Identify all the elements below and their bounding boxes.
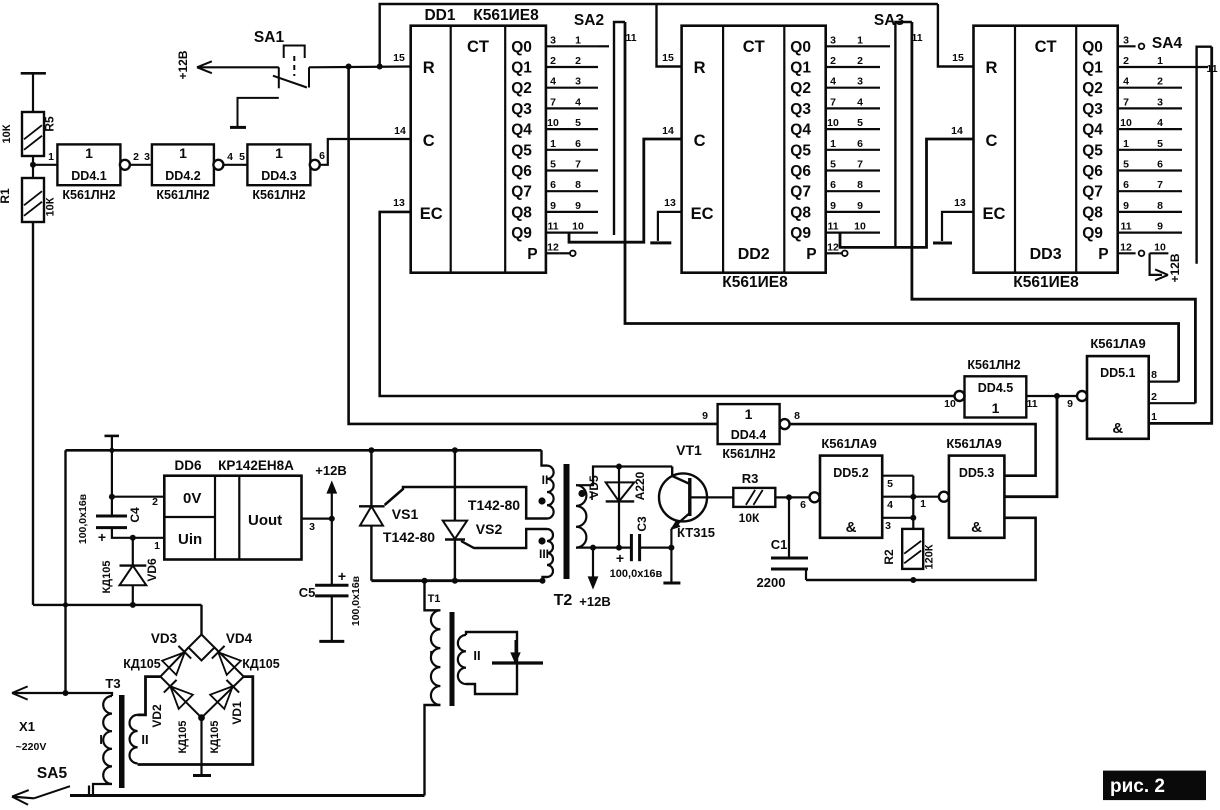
IC DD1 output pin stubs with pin numbers	[546, 45, 598, 47]
svg-text:Uin: Uin	[178, 531, 202, 548]
svg-text:DD4.5: DD4.5	[978, 381, 1013, 395]
junction VT1 emitter with C3 wire	[668, 545, 674, 551]
svg-text:Q5: Q5	[1082, 142, 1103, 159]
unconnected pin 12 circle DD3 P	[1139, 251, 1145, 257]
inverter DD4.4	[718, 404, 780, 444]
svg-text:I: I	[429, 648, 433, 663]
svg-text:КД105: КД105	[242, 657, 279, 671]
svg-text:Q2: Q2	[511, 80, 532, 97]
svg-text:0V: 0V	[183, 490, 201, 507]
svg-text:8: 8	[794, 410, 800, 422]
T2 winding III bottom to cathode rail	[543, 577, 548, 581]
svg-text:Q1: Q1	[1082, 60, 1103, 77]
wire bridge top vertex	[200, 605, 202, 635]
svg-text:2: 2	[133, 151, 139, 163]
svg-text:5: 5	[550, 159, 556, 171]
ground symbol near SA1	[238, 98, 279, 127]
SA1 right contact post	[308, 67, 310, 87]
inverter DD4.1	[57, 144, 120, 185]
svg-text:Q6: Q6	[790, 163, 811, 180]
svg-text:1: 1	[154, 540, 160, 552]
svg-text:Q9: Q9	[511, 225, 532, 242]
wire with arrow to +12V	[197, 66, 279, 68]
svg-text:P: P	[527, 246, 537, 263]
junction R2 bottom on feedback line	[910, 577, 916, 583]
svg-text:R5: R5	[43, 116, 57, 132]
extended contact 1 line of SA2	[598, 45, 609, 47]
svg-text:Q1: Q1	[790, 60, 811, 77]
T3 winding I bottom to bottom rail	[93, 784, 112, 796]
svg-text:2: 2	[1157, 76, 1163, 88]
svg-text:Q7: Q7	[790, 184, 811, 201]
svg-text:2: 2	[857, 55, 863, 67]
svg-text:&: &	[846, 519, 857, 536]
terminal bar above C4 node	[105, 435, 120, 438]
T3 winding II	[130, 715, 138, 764]
svg-text:I: I	[99, 732, 103, 747]
IC DD3 K561IE8 counter box	[974, 26, 1118, 273]
diode VD6	[132, 538, 134, 566]
svg-text:120К: 120К	[924, 544, 936, 569]
svg-text:+: +	[338, 568, 346, 584]
junction R bus to DD4.4 line	[346, 64, 352, 70]
resistor R2	[902, 529, 923, 569]
svg-text:DD5.1: DD5.1	[1100, 366, 1135, 380]
svg-text:10К: 10К	[1, 124, 13, 143]
svg-text:11: 11	[1120, 221, 1131, 233]
svg-text:10К: 10К	[45, 197, 57, 216]
ground at DD3 EC pin 13	[942, 212, 974, 241]
svg-text:9: 9	[1157, 221, 1163, 233]
svg-text:9: 9	[857, 200, 863, 212]
junction VD6 top	[130, 535, 136, 541]
svg-text:КД105: КД105	[101, 561, 113, 594]
svg-text:DD4.2: DD4.2	[165, 169, 200, 183]
svg-text:12: 12	[1120, 241, 1132, 253]
output bubble DD5.3	[939, 492, 949, 502]
output bubble DD4.4 pin 8	[780, 419, 790, 429]
polarity dot T2 winding III	[538, 537, 545, 544]
terminal bar above R5	[21, 72, 46, 75]
svg-text:VD3: VD3	[151, 631, 178, 646]
wire bottom of T2-I / VD5 / C3 / emitter	[576, 546, 631, 548]
svg-text:C: C	[986, 132, 998, 150]
svg-text:2200: 2200	[757, 575, 786, 590]
svg-text:К561ИЕ8: К561ИЕ8	[1013, 274, 1079, 291]
capacitor C1 plates	[771, 557, 808, 560]
wire DD4.4 output to DD5.3 input stub	[790, 424, 1036, 476]
VT1 emitter to ground	[670, 529, 672, 583]
T1 winding II	[458, 635, 466, 684]
inverter DD4.2	[152, 144, 214, 185]
ground bar under VT1	[663, 582, 680, 585]
wire T2 winding I top to VT1 collector	[576, 467, 672, 486]
svg-text:8: 8	[1151, 369, 1157, 381]
wire R3 to DD5.2 input	[775, 496, 809, 498]
svg-text:Q6: Q6	[511, 163, 532, 180]
svg-text:13: 13	[664, 197, 676, 209]
svg-text:3: 3	[830, 34, 836, 46]
svg-text:SA5: SA5	[37, 765, 68, 782]
svg-text:1: 1	[745, 406, 753, 422]
svg-text:14: 14	[662, 125, 674, 137]
svg-text:К561ЛН2: К561ЛН2	[156, 188, 209, 202]
DD5.1 input pin 2 stub	[1149, 402, 1196, 404]
svg-text:2: 2	[575, 55, 581, 67]
svg-text:КТ315: КТ315	[677, 525, 715, 540]
svg-text:1: 1	[992, 400, 1000, 416]
DD5.3 bottom stub to RC feedback line	[806, 518, 1036, 580]
resistor R5	[22, 112, 44, 156]
extended contact 1 line of SA3	[880, 45, 890, 47]
svg-text:5: 5	[830, 159, 836, 171]
VS1 gate wire to T2 winding II	[385, 487, 547, 519]
svg-text:CT: CT	[467, 38, 489, 56]
contact 1 line of SA4	[1182, 66, 1208, 68]
switch SA5 arrow	[12, 797, 34, 799]
svg-text:3: 3	[309, 521, 315, 533]
svg-text:8: 8	[857, 179, 863, 191]
svg-text:VD4: VD4	[226, 631, 253, 646]
svg-text:DD3: DD3	[1030, 246, 1062, 263]
svg-text:К561ЛН2: К561ЛН2	[722, 447, 775, 461]
wire R-bus down to DD4.4 input pin 9	[349, 67, 718, 424]
resistor R3	[733, 488, 775, 507]
DD5.2 input stub pin 3	[882, 517, 913, 519]
unconnected pin 12 circle DD1	[560, 252, 570, 254]
svg-text:+12В: +12В	[176, 50, 190, 79]
svg-text:С4: С4	[128, 507, 142, 523]
junction T1 primary tap	[422, 578, 428, 584]
svg-text:+: +	[98, 529, 106, 545]
figure label ris.2	[1103, 771, 1206, 801]
svg-text:EC: EC	[983, 205, 1006, 223]
polarity dot T2 winding I	[578, 490, 585, 497]
svg-text:+12В: +12В	[315, 463, 346, 478]
svg-text:1: 1	[550, 138, 556, 150]
svg-text:С3: С3	[635, 516, 649, 532]
wire DD1 EC pin 13 down and right to DD4.5 output	[380, 212, 959, 396]
T2 core	[564, 464, 570, 579]
DD5.2 input stub pin 4	[882, 496, 913, 498]
svg-text:5: 5	[887, 478, 893, 490]
svg-text:9: 9	[830, 200, 836, 212]
svg-text:12: 12	[547, 241, 559, 253]
svg-text:&: &	[971, 519, 982, 536]
svg-text:II: II	[542, 473, 549, 487]
output bubble DD4.5 pin 10	[955, 391, 965, 401]
svg-text:8: 8	[1157, 200, 1163, 212]
svg-text:11: 11	[625, 32, 636, 44]
svg-text:Q7: Q7	[511, 184, 532, 201]
svg-text:4: 4	[1157, 117, 1163, 129]
svg-text:X1: X1	[19, 719, 35, 734]
svg-text:4: 4	[857, 96, 863, 108]
svg-text:7: 7	[575, 159, 581, 171]
svg-text:EC: EC	[420, 205, 443, 223]
IC DD1 K561IE8 counter box	[411, 26, 546, 273]
svg-text:100,0х16в: 100,0х16в	[350, 575, 362, 626]
rotary switch SA3 common output wire to DD5.1 pin 2	[912, 22, 1196, 403]
junction to DD5.3 output riser	[1054, 393, 1060, 399]
svg-text:Q3: Q3	[1082, 101, 1103, 118]
svg-text:К561ЛА9: К561ЛА9	[821, 436, 876, 451]
svg-text:R: R	[694, 59, 706, 77]
X1 input arrow	[12, 692, 66, 694]
svg-text:10: 10	[854, 221, 866, 233]
thyristor VS2	[443, 521, 467, 539]
svg-text:Q9: Q9	[790, 225, 811, 242]
VS2 gate wire to T2 winding III	[461, 529, 547, 548]
svg-text:P: P	[1098, 246, 1108, 263]
svg-text:3: 3	[144, 151, 150, 163]
svg-text:4: 4	[1123, 76, 1129, 88]
polarity dot T2 winding II	[538, 497, 545, 504]
svg-text:13: 13	[954, 197, 966, 209]
svg-text:9: 9	[575, 200, 581, 212]
junction R bus to top rail	[377, 64, 383, 70]
wire R1 down left side	[32, 222, 34, 605]
T3 core	[119, 695, 125, 788]
bridge arm VD3	[160, 648, 188, 677]
bridge arm VD4	[215, 648, 244, 677]
svg-text:4: 4	[887, 499, 893, 511]
svg-text:1: 1	[1123, 138, 1129, 150]
VT1 emitter wire with arrow	[671, 513, 689, 529]
NAND gate DD5.1	[1087, 356, 1149, 439]
capacitor C3 plates	[630, 534, 633, 561]
svg-text:6: 6	[550, 179, 556, 191]
svg-text:DD4.4: DD4.4	[731, 428, 766, 442]
wire DD4.3 pin6 to DD1 C input pin 14	[320, 139, 411, 165]
svg-text:C: C	[694, 132, 706, 150]
svg-text:Q3: Q3	[511, 101, 532, 118]
svg-text:8: 8	[575, 179, 581, 191]
thyristor VS2 anode wire	[452, 447, 458, 453]
svg-text:Q0: Q0	[511, 39, 532, 56]
svg-text:6: 6	[857, 138, 863, 150]
svg-text:Q5: Q5	[790, 142, 811, 159]
rotary switch SA4 wiper bar	[1197, 47, 1212, 264]
svg-text:КД105: КД105	[177, 721, 189, 754]
riser from DD5.3 middle stub up to DD4.5/DD5.1 wire	[1004, 396, 1057, 497]
svg-text:VD1: VD1	[230, 701, 244, 725]
wire DD2 Q9 to DD3 C pin 14 (cascade)	[840, 139, 974, 247]
svg-text:15: 15	[393, 52, 405, 64]
svg-text:К561ИЕ8: К561ИЕ8	[722, 274, 788, 291]
output bubble DD4.3	[310, 160, 320, 170]
svg-text:4: 4	[830, 76, 836, 88]
bridge right vertex to T3 winding II bottom line	[138, 677, 253, 765]
svg-text:КД105: КД105	[209, 721, 221, 754]
rotary switch SA4 common output wire down to DD5.1 pin 1	[1149, 47, 1212, 424]
svg-text:5: 5	[857, 117, 863, 129]
svg-text:7: 7	[1123, 96, 1129, 108]
svg-text:+12В: +12В	[1168, 253, 1182, 282]
NAND gate DD5.3	[949, 456, 1005, 538]
svg-text:15: 15	[662, 52, 674, 64]
svg-text:10: 10	[572, 221, 584, 233]
rotary switch SA2 wiper bar	[614, 22, 625, 235]
svg-text:2: 2	[1123, 55, 1129, 67]
spark gap plate electrode	[492, 661, 543, 664]
svg-text:R: R	[423, 59, 435, 77]
svg-text:R3: R3	[742, 471, 759, 486]
svg-text:6: 6	[830, 179, 836, 191]
svg-text:Q6: Q6	[1082, 163, 1103, 180]
svg-text:I: I	[590, 489, 593, 503]
svg-text:6: 6	[1123, 179, 1129, 191]
svg-text:3: 3	[1157, 96, 1163, 108]
svg-text:Q2: Q2	[790, 80, 811, 97]
svg-text:5: 5	[1123, 159, 1129, 171]
wire DD4.2 pin4 to DD4.3 pin5	[223, 164, 247, 166]
svg-text:10: 10	[547, 117, 559, 129]
svg-text:3: 3	[1123, 34, 1129, 46]
node junction R5/R1 to DD4.1 input	[30, 162, 36, 168]
wire X1 line junction	[63, 690, 69, 696]
svg-text:6: 6	[1157, 159, 1163, 171]
svg-text:Q2: Q2	[1082, 80, 1103, 97]
T1 winding I	[431, 610, 440, 705]
svg-text:EC: EC	[691, 205, 714, 223]
svg-text:14: 14	[394, 125, 406, 137]
svg-text:R2: R2	[882, 549, 896, 565]
svg-text:Т1: Т1	[428, 593, 441, 605]
bridge arm VD2	[160, 677, 201, 718]
svg-text:7: 7	[550, 96, 556, 108]
capacitor C4 plates	[96, 515, 127, 518]
junction VD5 bottom	[616, 545, 622, 551]
svg-text:Q8: Q8	[790, 204, 811, 221]
svg-text:1: 1	[920, 498, 926, 510]
+12V arrow above Uout node	[331, 488, 333, 519]
svg-text:2: 2	[152, 496, 158, 508]
svg-text:Т3: Т3	[105, 676, 120, 691]
output bubble DD4.2	[213, 160, 223, 170]
rotary switch SA3 wiper bar	[895, 22, 912, 247]
svg-text:5: 5	[1157, 138, 1163, 150]
svg-text:Т142-80: Т142-80	[383, 529, 435, 545]
svg-text:Q3: Q3	[790, 101, 811, 118]
svg-text:7: 7	[857, 159, 863, 171]
svg-text:КД105: КД105	[123, 657, 160, 671]
unconnected pin 12 circle DD2	[840, 252, 842, 254]
wire Uout pin 3 to +12V node	[302, 517, 332, 519]
svg-text:2: 2	[1151, 391, 1157, 403]
inverter DD4.5	[965, 376, 1027, 417]
T1 core	[450, 612, 455, 706]
svg-text:100,0х16в: 100,0х16в	[77, 493, 89, 544]
svg-text:III: III	[539, 547, 549, 561]
svg-text:9: 9	[702, 410, 708, 422]
svg-text:+12В: +12В	[579, 594, 610, 609]
svg-text:С1: С1	[771, 537, 788, 552]
svg-text:Q4: Q4	[790, 122, 811, 139]
junction VD5 top	[616, 464, 622, 470]
svg-text:А220: А220	[633, 471, 647, 500]
wire VT1 base to R3	[691, 496, 733, 498]
svg-text:К561ЛА9: К561ЛА9	[946, 436, 1001, 451]
rotary switch SA2 common output wire to DD5.1 pin 8	[625, 22, 1179, 382]
svg-text:1: 1	[1157, 55, 1163, 67]
svg-text:5: 5	[239, 151, 245, 163]
svg-text:К561ЛН2: К561ЛН2	[62, 188, 115, 202]
output bubble DD4.1	[120, 160, 130, 170]
SA5 contact post	[88, 786, 90, 796]
svg-text:DD1: DD1	[424, 7, 455, 24]
svg-text:~220V: ~220V	[16, 741, 47, 753]
svg-text:VS2: VS2	[476, 521, 503, 537]
svg-text:VD6: VD6	[145, 558, 159, 582]
svg-text:6: 6	[319, 150, 325, 162]
svg-text:Uout: Uout	[248, 512, 282, 529]
bridge center diamond	[189, 635, 215, 661]
junction rail-left-corner crossing	[63, 602, 68, 607]
wire C1 bottom to feedback line	[805, 569, 807, 580]
svg-text:1: 1	[179, 145, 187, 161]
svg-text:10К: 10К	[739, 511, 760, 525]
svg-text:SA3: SA3	[874, 12, 905, 29]
SA1 blade	[273, 76, 307, 88]
svg-text:7: 7	[1157, 179, 1163, 191]
svg-text:Q8: Q8	[1082, 204, 1103, 221]
svg-text:11: 11	[911, 32, 922, 44]
svg-text:DD4.1: DD4.1	[71, 169, 106, 183]
svg-text:К561ИЕ8: К561ИЕ8	[473, 7, 539, 24]
svg-text:DD5.2: DD5.2	[833, 466, 868, 480]
svg-text:3: 3	[575, 76, 581, 88]
vertical tie of DD5.2 inputs	[912, 476, 914, 529]
svg-text:9: 9	[1067, 398, 1073, 410]
inverter DD4.3	[247, 144, 310, 185]
bridge arm VD1	[202, 677, 244, 718]
svg-text:Q4: Q4	[511, 122, 532, 139]
svg-text:1: 1	[857, 34, 863, 46]
DD5.1 input pin 8 stub	[1149, 381, 1179, 383]
svg-text:3: 3	[885, 520, 891, 532]
svg-text:4: 4	[575, 96, 581, 108]
IC DD2 K561IE8 counter box	[682, 26, 826, 273]
svg-text:15: 15	[952, 52, 964, 64]
svg-text:1: 1	[1151, 411, 1157, 423]
svg-text:5: 5	[575, 117, 581, 129]
svg-text:SA2: SA2	[574, 12, 604, 29]
svg-text:VD2: VD2	[150, 704, 164, 728]
T3 winding I	[103, 696, 112, 784]
thyristor VS1 anode wire	[368, 447, 374, 453]
DC rail wire +	[66, 449, 542, 452]
switch SA5 blade	[34, 786, 70, 798]
svg-text:C: C	[423, 132, 435, 150]
IC DD3 output pin stubs with pin numbers	[1118, 45, 1136, 47]
svg-text:VS1: VS1	[392, 506, 419, 522]
svg-text:12: 12	[827, 241, 839, 253]
svg-text:P: P	[806, 246, 816, 263]
bridge bottom vertex to ground	[198, 714, 205, 721]
svg-text:Q8: Q8	[511, 204, 532, 221]
wire junction to DD4.1 pin 1	[33, 164, 57, 166]
svg-text:Q9: Q9	[1082, 225, 1103, 242]
contact 10 line of SA4 to +12V arrow	[1150, 252, 1169, 254]
svg-text:DD4.3: DD4.3	[261, 169, 296, 183]
diode VD3 of bridge	[162, 652, 185, 675]
svg-text:14: 14	[951, 125, 963, 137]
bridge left vertex to T3 winding II top	[138, 677, 161, 715]
svg-text:11: 11	[827, 221, 838, 233]
svg-text:К561ЛН2: К561ЛН2	[967, 358, 1020, 372]
svg-text:К561ЛА9: К561ЛА9	[1090, 336, 1145, 351]
